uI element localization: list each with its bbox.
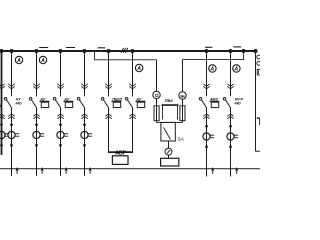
withdrawable contact chevrons feeder 5 top	[203, 84, 209, 87]
withdrawable contact chevrons feeder 3 top	[57, 84, 63, 87]
svg-text:A: A	[40, 58, 45, 64]
wire: feeder 5 upper section	[206, 51, 208, 96]
withdrawable contact chevrons (cut feeder, top)	[0, 84, 5, 87]
upper apparatus box	[162, 106, 164, 120]
withdrawable contact chevrons incomer 1 top	[105, 84, 111, 87]
withdrawable contact chevrons incomer 1 bottom	[105, 114, 111, 117]
node: bus tap of cut-off feeder	[0, 49, 4, 53]
current transformer TA feeder 3	[59, 123, 62, 126]
indicator lamp HL2	[257, 61, 261, 65]
outgoing line arrow feeder 5	[211, 167, 214, 171]
wire: left supply through fuse	[156, 99, 158, 123]
node: bus junction feeder 6	[228, 49, 232, 53]
isolation dash mark 1	[39, 47, 48, 49]
wire: cross link to changeover box	[157, 121, 183, 123]
wire: feeder 5 middle section	[206, 108, 208, 127]
isolation dash mark 2	[66, 47, 75, 49]
withdrawable contact chevrons incomer 2 bottom	[129, 114, 135, 117]
wire: incomer 2 lower section to ABP	[132, 108, 134, 153]
disconnect switch QS feeder 3	[53, 98, 56, 101]
ammeter PA feeder 2	[39, 56, 46, 63]
wire: feeder 6 upper section	[230, 51, 232, 96]
meter (right supply)	[179, 92, 186, 99]
bottom neutral/PE busbar	[0, 168, 260, 170]
ABP relay box	[112, 156, 128, 165]
main busbar	[0, 50, 256, 52]
disconnect switch QS feeder 5	[199, 98, 202, 101]
wire: feeder 1 middle section	[11, 108, 13, 125]
wire: incomer 1 upper section	[108, 51, 110, 96]
changeover switch box	[161, 122, 175, 141]
node: bus junction feeder 4	[82, 49, 86, 53]
wire: feeder 5 outgoing cable	[206, 120, 208, 177]
current transformer TA feeder 2	[35, 123, 38, 126]
disconnect switch QS feeder 1	[4, 98, 7, 101]
switch blade (cut feeder)	[0, 100, 2, 108]
svg-text:SA: SA	[177, 136, 183, 142]
node: bus end junction	[253, 49, 257, 53]
outgoing line arrow, feeder 1	[16, 167, 19, 171]
svg-text:Cl: Cl	[155, 93, 159, 98]
svg-text:A: A	[136, 66, 141, 72]
wire: right bypass sub-bus	[183, 51, 244, 60]
svg-text:A: A	[16, 58, 21, 64]
node: bus junction incomer 2	[130, 49, 134, 53]
wire: feeder 3 middle section	[60, 108, 62, 125]
withdrawable contact chevrons (cut feeder, bottom)	[0, 114, 5, 117]
outgoing line arrow, feeder 3	[65, 167, 68, 171]
node: bus junction feeder 5	[204, 49, 208, 53]
disconnect switch QS feeder 2	[29, 98, 32, 101]
withdrawable contact chevrons feeder 1 bottom	[8, 114, 14, 117]
withdrawable contact chevrons feeder 6 top	[227, 84, 233, 87]
svg-text:ПВ4: ПВ4	[165, 98, 174, 103]
withdrawable contact chevrons feeder 4 top	[81, 84, 87, 87]
current transformer (cut feeder)	[0, 123, 3, 126]
current transformer TA feeder 5	[205, 125, 208, 128]
wire: feeder 1 outgoing cable	[11, 119, 13, 176]
motor drive M	[165, 148, 172, 155]
withdrawable contact chevrons feeder 4 bottom	[81, 114, 87, 117]
disconnect switch QS feeder 6	[223, 98, 226, 101]
wire: feeder 3 upper section	[60, 51, 62, 96]
changeover blade SA	[164, 127, 171, 139]
wire: feeder 4 upper section	[84, 51, 86, 96]
isolation dash mark 4	[205, 46, 212, 48]
current transformer TA feeder 6	[229, 125, 232, 128]
outgoing line arrow, feeder 4	[89, 167, 92, 171]
wire: feeder 6 outgoing cable	[230, 120, 232, 177]
wire: right edge exit to panel	[256, 150, 261, 152]
wire: right supply through fuse	[182, 99, 184, 122]
withdrawable contact chevrons feeder 1 top	[8, 84, 14, 87]
svg-text:A: A	[234, 66, 239, 72]
outgoing line arrow, feeder 2	[41, 167, 44, 171]
isolation dash mark 5	[233, 46, 241, 48]
meter (left supply)	[153, 91, 160, 98]
disconnect switch QS feeder 4	[77, 98, 80, 101]
svg-text:Вк: Вк	[180, 93, 185, 98]
three-conductor slash marks on busbar	[121, 48, 123, 53]
withdrawable contact chevrons feeder 2 top	[33, 84, 39, 87]
wire: feeder 4 outgoing cable	[84, 119, 86, 176]
ammeter PA incomer 2	[135, 64, 142, 71]
isolation dash mark 3	[98, 47, 106, 49]
ABP bottom bar	[108, 151, 133, 153]
current transformer TA feeder 4	[83, 123, 86, 126]
disconnect switch QS incomer 2	[125, 98, 128, 101]
wire: cut-off feeder drop	[1, 51, 3, 155]
svg-text:A: A	[210, 66, 215, 72]
fuse FU left supply	[154, 106, 159, 121]
drive unit box	[161, 158, 179, 166]
withdrawable contact chevrons feeder 3 bottom	[57, 114, 63, 117]
svg-text:4Ю: 4Ю	[234, 101, 241, 105]
withdrawable contact chevrons feeder 2 bottom	[33, 114, 39, 117]
node: bus junction feeder 3	[58, 49, 62, 53]
wire: to motor drive	[168, 141, 170, 148]
ammeter PA feeder 1	[15, 56, 22, 63]
contact lid bar	[162, 104, 179, 106]
withdrawable contact chevrons feeder 6 bottom	[227, 114, 233, 117]
wire: motor to drive unit	[168, 155, 170, 158]
withdrawable contact chevrons feeder 5 bottom	[203, 114, 209, 117]
withdrawable contact chevrons incomer 2 top	[129, 84, 135, 87]
wire: incomer 2 upper section	[132, 51, 134, 96]
node: sub-bus junction on busbar	[241, 49, 245, 53]
indicator lamp HL1	[257, 55, 261, 59]
wire: feeder 6 middle section	[230, 108, 232, 127]
wire: left supply drop	[156, 60, 158, 92]
outgoing line arrow feeder 6	[235, 167, 238, 171]
fuse FU right supply	[180, 106, 185, 121]
wire: feeder 2 middle section	[36, 108, 38, 125]
wire: incomer 1 lower section to ABP	[108, 108, 110, 153]
wire: feeder 2 outgoing cable	[36, 119, 38, 176]
ammeter PA feeder 6	[233, 65, 240, 72]
node: bus junction incomer 1	[106, 49, 110, 53]
ammeter PA feeder 5	[209, 65, 216, 72]
wire: feeder 3 outgoing cable	[60, 119, 62, 176]
current transformer TA feeder 1	[10, 123, 13, 126]
node: bus junction feeder 1	[9, 49, 13, 53]
svg-text:4Ю: 4Ю	[15, 101, 22, 105]
wire: feeder 4 middle section	[84, 108, 86, 125]
wire: right edge drop	[255, 51, 257, 151]
wire: feeder 1 upper section	[11, 51, 13, 96]
wire: right supply drop	[182, 60, 184, 92]
disconnect switch QS incomer 1	[101, 98, 104, 101]
wire: left bypass sub-bus	[95, 51, 157, 60]
svg-text:Т: Т	[257, 116, 260, 128]
wire: feeder 2 upper section	[36, 51, 38, 96]
node: bus junction feeder 2	[34, 49, 38, 53]
terminal block (cut off)	[257, 70, 262, 75]
